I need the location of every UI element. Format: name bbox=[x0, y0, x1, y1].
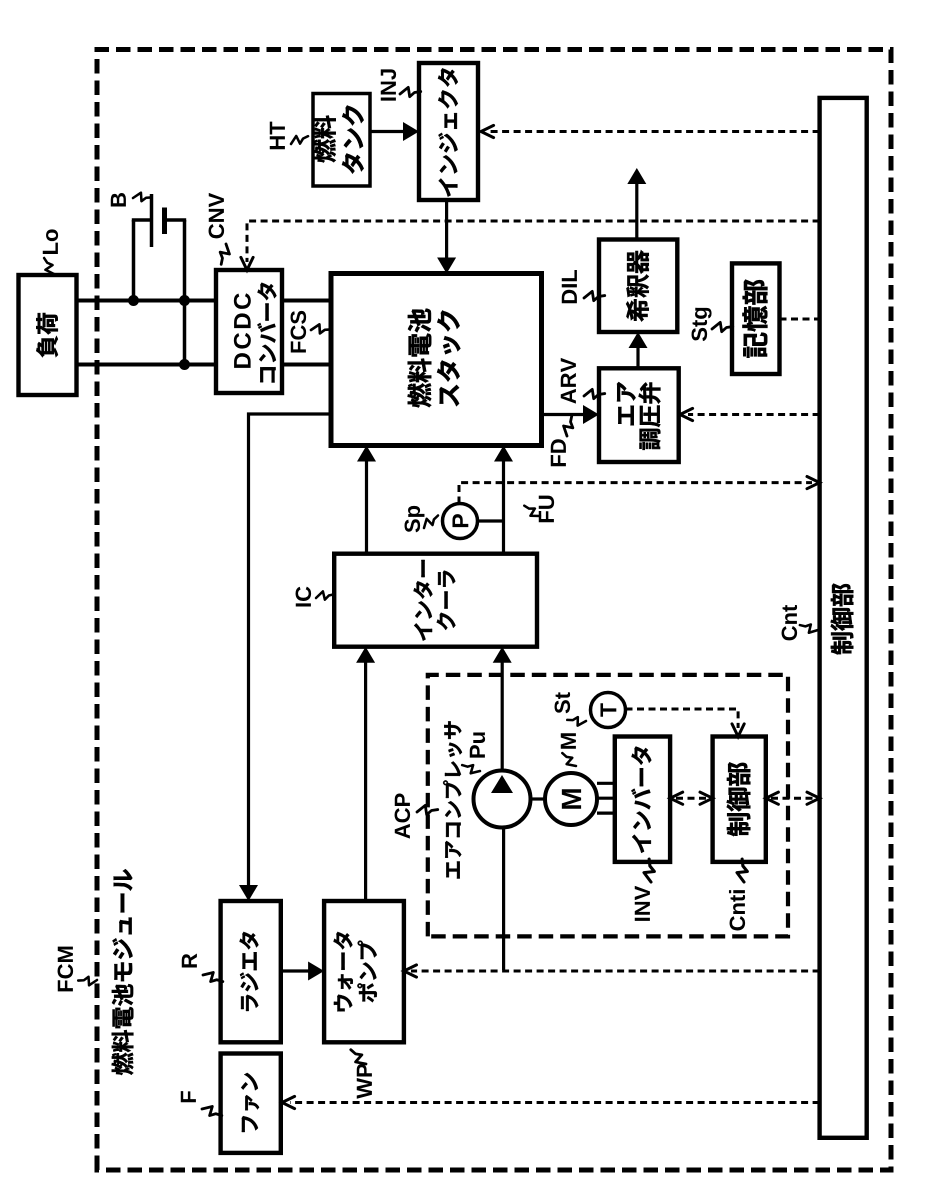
tank text line2 bbox=[342, 105, 364, 173]
junction dot A-batt2 bbox=[179, 295, 190, 306]
compressor triangle bbox=[491, 775, 513, 793]
load box text bbox=[36, 313, 58, 357]
sensor T letter bbox=[600, 703, 616, 717]
storage text bbox=[742, 280, 767, 358]
box: main controller Cnt bbox=[820, 98, 867, 1138]
label Cnti bbox=[729, 890, 745, 930]
compressor circle Pu bbox=[474, 771, 531, 828]
arrow tank-injector bbox=[370, 130, 412, 133]
label FCM bbox=[58, 947, 74, 992]
junction dot B-batt2 bbox=[179, 359, 190, 370]
fan text bbox=[241, 1073, 259, 1132]
label HT bbox=[270, 122, 285, 150]
box: DCDC converter CNV bbox=[216, 270, 282, 393]
label FCS bbox=[291, 311, 307, 353]
battery short plate bbox=[162, 208, 167, 235]
coolant line stack-radiator bbox=[249, 414, 332, 893]
battery long plate bbox=[150, 194, 154, 247]
wire DCDC-stack B bbox=[282, 363, 331, 367]
dashed storage-controller bbox=[780, 318, 820, 321]
wire DCDC-stack A bbox=[282, 299, 331, 303]
arrow diluter-exhaust bbox=[635, 176, 638, 240]
label FU bbox=[539, 496, 554, 523]
air intake line bbox=[502, 829, 505, 970]
inverter text bbox=[631, 746, 651, 852]
dashed controller-fan bbox=[290, 1101, 820, 1104]
dashed auxcontroller-controller bbox=[771, 797, 814, 800]
valve text line2 bbox=[639, 382, 661, 449]
battery lead 2 bbox=[183, 220, 187, 365]
dashed Psensor-controller bbox=[459, 483, 812, 504]
label IC bbox=[296, 587, 312, 607]
dashed T-controller bbox=[626, 709, 739, 728]
diluter text bbox=[626, 250, 649, 321]
label Stg bbox=[692, 308, 712, 341]
battery stem bottom bbox=[165, 218, 187, 222]
DCDC text line1 bbox=[234, 293, 251, 368]
box: intercooler IC bbox=[334, 554, 537, 647]
sensor P letter bbox=[452, 514, 468, 527]
box: radiator R bbox=[221, 901, 281, 1042]
label WP bbox=[357, 1064, 372, 1099]
link compressor-motor bbox=[532, 797, 545, 800]
valve text line1 bbox=[617, 382, 636, 425]
dashed inverter-auxcontroller bbox=[676, 797, 707, 800]
box: fuel cell stack FCS bbox=[331, 274, 542, 446]
junction dot A-batt1 bbox=[128, 295, 139, 306]
wpump text line2 bbox=[357, 941, 376, 1003]
arrow IC-stack coolant bbox=[365, 452, 368, 554]
label Lo bbox=[43, 229, 58, 254]
wire load-DCDC A bbox=[77, 299, 217, 303]
box: injector INJ bbox=[419, 63, 478, 200]
battery stem top bbox=[132, 218, 152, 222]
stack text line1 bbox=[408, 309, 432, 408]
tank text line1 bbox=[313, 116, 336, 163]
arrow valve-diluter bbox=[636, 339, 639, 368]
arrow compressor-intercooler bbox=[501, 653, 504, 769]
label R bbox=[182, 954, 197, 968]
label FD bbox=[551, 439, 566, 466]
arrow injector-stack bbox=[445, 200, 448, 265]
box: air compressor unit ACP (dashed) bbox=[428, 675, 788, 937]
wpump text line1 bbox=[334, 932, 353, 1012]
label Sp bbox=[405, 506, 425, 533]
dashed controller-injector bbox=[489, 130, 820, 133]
label INJ bbox=[381, 69, 396, 100]
DCDC text line2 bbox=[257, 283, 276, 383]
label CNV bbox=[209, 193, 225, 238]
arrow pump-intercooler bbox=[364, 653, 367, 901]
arrow radiator-pump bbox=[281, 969, 317, 972]
label ACP bbox=[395, 794, 411, 839]
motor circle M bbox=[545, 773, 597, 825]
dashed controller-DCDC CNV bbox=[247, 221, 820, 262]
label St bbox=[555, 692, 571, 713]
arrow IC-stack air FU bbox=[502, 452, 505, 554]
three-phase line 1 bbox=[597, 811, 615, 814]
stack text line2 bbox=[437, 311, 460, 407]
label Pu bbox=[470, 732, 485, 757]
intercooler text line2 bbox=[437, 571, 456, 631]
box: water pump WP bbox=[324, 901, 404, 1042]
battery lead 1 bbox=[132, 220, 136, 301]
sensor P circle bbox=[443, 504, 478, 539]
ACP unit text bbox=[443, 721, 462, 878]
box: load (fuga) bbox=[19, 275, 77, 395]
box: air regulating valve ARV bbox=[599, 368, 679, 462]
label INV bbox=[635, 886, 650, 921]
aux controller text bbox=[727, 762, 751, 836]
injector text bbox=[438, 68, 458, 196]
label F bbox=[181, 1091, 196, 1102]
arrow stack-valve FD bbox=[542, 413, 593, 416]
label: fuel cell module text bbox=[112, 869, 134, 1075]
label B bbox=[111, 193, 126, 206]
box: aux controller Cnti bbox=[713, 737, 766, 862]
radiator text bbox=[240, 932, 259, 1011]
intercooler text line1 bbox=[414, 560, 433, 641]
motor letter bbox=[562, 789, 581, 809]
P sensor stub bbox=[478, 519, 504, 522]
controller text bbox=[831, 584, 854, 655]
box: fuel tank HT bbox=[313, 94, 370, 187]
label DIL bbox=[562, 270, 577, 303]
label ARV bbox=[561, 358, 576, 404]
box: fan F bbox=[221, 1054, 281, 1153]
three-phase line 2 bbox=[597, 797, 615, 800]
three-phase line 3 bbox=[597, 782, 615, 785]
sensor T circle bbox=[591, 693, 626, 728]
dashed controller-valve bbox=[688, 413, 820, 416]
wire load-DCDC B bbox=[77, 363, 217, 367]
dashed controller-waterpump bbox=[411, 970, 820, 973]
box: inverter INV bbox=[615, 737, 670, 862]
box: storage Stg bbox=[732, 263, 780, 374]
box: diluter DIL bbox=[599, 240, 677, 333]
label M bbox=[561, 733, 576, 748]
label Cnt bbox=[782, 605, 798, 640]
